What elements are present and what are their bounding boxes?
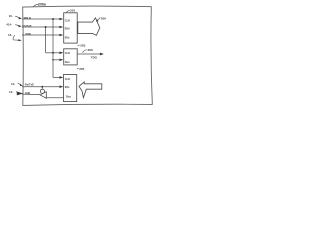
svg-text:VDD: VDD: [25, 32, 31, 36]
svg-text:E00: E00: [65, 27, 70, 31]
svg-text:205: 205: [79, 67, 84, 71]
svg-text:12-: 12-: [11, 82, 15, 86]
svg-text:Rx/TxE: Rx/TxE: [25, 82, 34, 86]
svg-text:414-: 414-: [6, 22, 12, 26]
svg-text:206a: 206a: [38, 2, 46, 6]
svg-text:203: 203: [80, 43, 85, 47]
svg-text:CLK: CLK: [65, 77, 71, 81]
svg-text:13-: 13-: [9, 90, 13, 94]
svg-text:FS/TxP: FS/TxP: [22, 24, 31, 28]
svg-text:CLK: CLK: [65, 19, 71, 23]
svg-text:E0x: E0x: [65, 35, 70, 39]
svg-text:201: 201: [70, 8, 75, 12]
svg-text:206: 206: [101, 16, 106, 20]
svg-text:Dxx: Dxx: [66, 95, 71, 99]
svg-text:Dxx: Dxx: [65, 60, 70, 64]
svg-text:206: 206: [88, 48, 93, 52]
svg-text:TDO: TDO: [91, 56, 98, 60]
svg-text:WR B: WR B: [24, 16, 31, 20]
svg-text:CLK: CLK: [65, 51, 71, 55]
svg-text:E5x: E5x: [65, 85, 70, 89]
svg-text:10-: 10-: [9, 14, 13, 18]
svg-text:E0E: E0E: [25, 91, 30, 95]
svg-text:16-: 16-: [8, 33, 12, 37]
